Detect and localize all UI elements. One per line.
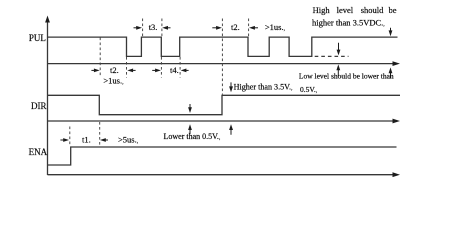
svg-text:Higher than 3.5V.,: Higher than 3.5V., — [234, 83, 293, 92]
svg-text:Highlevelshouldbe: Highlevelshouldbe — [313, 5, 397, 15]
svg-text:>5us.,: >5us., — [118, 134, 139, 144]
svg-text:>1us.,: >1us., — [103, 75, 124, 85]
svg-text:>1us.,: >1us., — [265, 22, 286, 32]
svg-text:t4.: t4. — [170, 65, 179, 75]
svg-text:PUL: PUL — [29, 33, 46, 43]
svg-text:Lower than 0.5V.,: Lower than 0.5V., — [164, 132, 221, 141]
svg-text:t2.: t2. — [110, 65, 119, 75]
svg-text:ENA: ENA — [29, 147, 48, 157]
svg-text:DIR: DIR — [31, 101, 47, 111]
svg-text:higher than 3.5VDC.,: higher than 3.5VDC., — [312, 18, 385, 28]
svg-text:t3.: t3. — [149, 22, 158, 32]
svg-text:t1.: t1. — [82, 134, 91, 144]
svg-text:0.5V.,: 0.5V., — [300, 85, 318, 94]
svg-text:Low level should be lower than: Low level should be lower than — [299, 72, 394, 81]
svg-text:t2.: t2. — [231, 22, 240, 32]
